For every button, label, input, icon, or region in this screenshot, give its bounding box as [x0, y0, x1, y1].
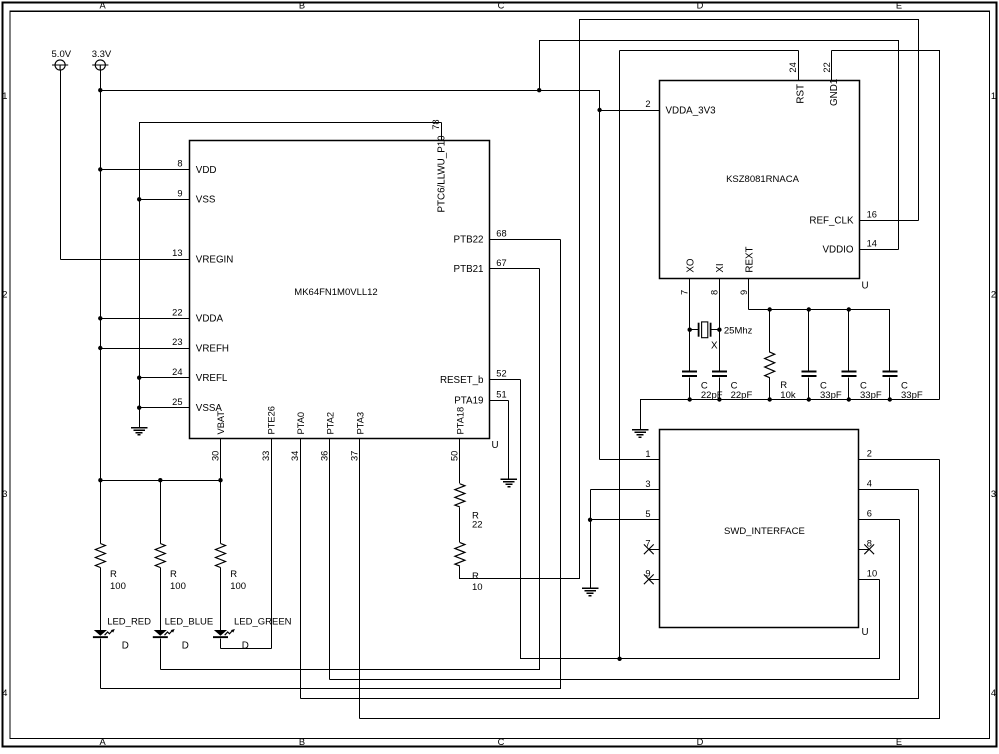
svg-text:PTC6/LLWU_P10: PTC6/LLWU_P10 [437, 135, 448, 213]
pin 22 VDDA of U1 [101, 318, 190, 320]
svg-text:VDDA_3V3: VDDA_3V3 [666, 105, 717, 116]
svg-text:25Mhz: 25Mhz [724, 326, 753, 337]
svg-text:XI: XI [715, 263, 726, 272]
svg-text:14: 14 [867, 239, 877, 249]
svg-text:GND1: GND1 [829, 79, 840, 106]
pin 52 RESET_b of U1 [490, 379, 521, 381]
svg-text:R: R [110, 569, 117, 580]
svg-text:VREFL: VREFL [196, 373, 228, 384]
svg-text:8: 8 [177, 159, 182, 169]
wire cap4 bottom lead [848, 378, 850, 400]
svg-text:VREFH: VREFH [196, 343, 229, 354]
LED LED_BLUE D2 [154, 630, 167, 636]
wire rail to R3 lead [220, 481, 222, 544]
pin 8 of SWD connector (no connect) [859, 549, 870, 551]
junction RST net / SWD pin10 [617, 657, 621, 661]
resistor R 10 (REF_CLK series) [455, 543, 465, 567]
svg-text:2: 2 [645, 99, 650, 109]
junction REXT rail / C4 [847, 307, 851, 311]
svg-text:PTB21: PTB21 [454, 264, 484, 275]
svg-text:U: U [862, 281, 869, 292]
junction LED rail / R2 [158, 478, 162, 482]
pin 9 REXT of PHY [748, 279, 750, 310]
svg-text:VDDIO: VDDIO [822, 245, 853, 256]
svg-text:8: 8 [709, 290, 719, 295]
svg-text:D: D [122, 640, 129, 651]
resistor R2 100 (LED_BLUE) [155, 544, 165, 568]
svg-text:B: B [299, 1, 305, 11]
svg-text:A: A [99, 737, 106, 747]
wire RESET_b vertical [521, 380, 880, 659]
wire LED_GREEN anode lead [220, 568, 222, 631]
svg-text:1: 1 [991, 91, 996, 101]
wire PTB22 to LED_RED [101, 240, 561, 689]
junction gnd rail / C4 [847, 397, 851, 401]
svg-text:XO: XO [685, 258, 696, 273]
svg-text:13: 13 [172, 248, 182, 258]
wire RST top link [620, 50, 799, 52]
svg-text:D: D [697, 1, 704, 11]
svg-text:D: D [242, 640, 249, 651]
ground (SWD pins 3/5) [582, 587, 599, 589]
svg-text:22: 22 [472, 520, 483, 531]
pin 37 PTA3 of U1 [359, 439, 361, 719]
junction VDD [98, 167, 102, 171]
svg-text:X: X [711, 341, 718, 352]
svg-text:R: R [170, 569, 177, 580]
LED LED_RED D1 [94, 630, 107, 636]
pin 14 VDDIO of PHY [860, 249, 899, 251]
wire VDDIO branch [540, 41, 899, 250]
junction XI / crystal [717, 328, 721, 332]
pin 2 VDDA_3V3 of PHY [600, 110, 660, 112]
pin 13 VREGIN of U1 [61, 259, 190, 261]
svg-text:VREGIN: VREGIN [196, 254, 234, 265]
wire PTE26 to LED_GREEN [221, 648, 272, 650]
svg-text:VBAT: VBAT [216, 411, 226, 435]
junction XO / crystal [688, 328, 692, 332]
svg-text:A: A [99, 1, 106, 11]
pin 78 PTC6/LLWU_P10 of U1 [441, 123, 443, 141]
pin 36 PTA2 of U1 [329, 439, 331, 680]
svg-text:E: E [896, 1, 902, 11]
svg-text:PTA2: PTA2 [326, 412, 336, 435]
pin 5 of SWD connector [591, 519, 660, 521]
wire cap3 top lead [808, 310, 810, 371]
wire rail to R2 lead [160, 481, 162, 544]
svg-text:25: 25 [172, 397, 182, 407]
pin 68 PTB22 of U1 [490, 239, 561, 241]
svg-text:100: 100 [230, 581, 246, 592]
pin 9 VSS of U1 [140, 199, 190, 201]
wire cap4 top lead [848, 310, 850, 371]
pin 67 PTB21 of U1 [490, 268, 540, 270]
svg-text:2: 2 [991, 290, 996, 300]
wire crystal stub left [690, 329, 699, 331]
svg-text:51: 51 [496, 389, 506, 399]
svg-text:5.0V: 5.0V [52, 49, 72, 60]
svg-text:4: 4 [991, 688, 996, 698]
connector SWD_INTERFACE body [660, 430, 859, 628]
svg-text:2: 2 [867, 449, 872, 459]
junction VSSA [137, 406, 141, 410]
wire LED_RED anode lead [100, 568, 102, 631]
svg-text:6: 6 [867, 509, 872, 519]
wire PTA0 to SWD pin4 [301, 490, 919, 699]
svg-text:3: 3 [645, 479, 650, 489]
svg-text:PTB22: PTB22 [454, 235, 484, 246]
svg-text:36: 36 [320, 451, 330, 461]
svg-text:22: 22 [822, 62, 832, 72]
junction gnd rail / C5 [888, 397, 892, 401]
svg-text:MK64FN1M0VLL12: MK64FN1M0VLL12 [294, 287, 377, 298]
wire rail to R1 lead [100, 481, 102, 544]
pin 30 VBAT of U1 [220, 439, 222, 481]
capacitor C 33pF (1) [801, 371, 816, 373]
wire LED_RED cathode lead [100, 639, 102, 689]
svg-text:RST: RST [795, 84, 806, 104]
pin 4 of SWD connector [859, 489, 919, 491]
pin 23 VREFH of U1 [101, 348, 190, 350]
svg-text:50: 50 [450, 451, 460, 461]
svg-text:24: 24 [788, 62, 798, 72]
capacitor C 22pF (XI) [712, 371, 727, 373]
svg-text:24: 24 [172, 367, 182, 377]
svg-text:9: 9 [177, 189, 182, 199]
wire PTA19 to ground [508, 401, 510, 480]
svg-text:REF_CLK: REF_CLK [809, 216, 854, 227]
wire cap1 bottom lead [689, 378, 691, 400]
svg-text:LED_BLUE: LED_BLUE [165, 616, 214, 627]
junction REXT rail / C3 [807, 307, 811, 311]
wire 3.3V to VDDA_3V3/SWD pin1 [101, 91, 600, 460]
svg-text:10: 10 [472, 582, 483, 593]
junction VDDA [98, 316, 102, 320]
junction 3.3V rail / horizontal [98, 88, 102, 92]
svg-text:10: 10 [867, 569, 877, 579]
wire cap2 bottom lead [719, 378, 721, 400]
junction gnd rail / C2 [717, 397, 721, 401]
pin 16 REF_CLK of PHY [860, 220, 919, 222]
junction VDDIO branch [537, 88, 541, 92]
junction VREFL [137, 376, 141, 380]
resistor R 22 (PTA18 series) [455, 484, 465, 507]
svg-text:C: C [498, 737, 505, 747]
svg-text:PTA19: PTA19 [454, 396, 483, 407]
junction gnd rail / C1 [688, 397, 692, 401]
wire pin78 to ground rail [140, 123, 442, 428]
pin 33 PTE26 of U1 [271, 439, 273, 649]
crystal X 25Mhz [698, 323, 700, 337]
wire REXT rail [749, 310, 890, 371]
pin 50 PTA18 of U1 [459, 439, 461, 484]
wire cap5 bottom lead [889, 378, 891, 400]
resistor R 10k (REXT) [765, 352, 775, 378]
svg-text:9: 9 [739, 290, 749, 295]
IC KSZ8081RNACA body [660, 81, 860, 279]
wire GND1 to cap rail [832, 51, 940, 400]
capacitor C 33pF (2) [841, 371, 856, 373]
wire cap3 bottom lead [808, 378, 810, 400]
power flag 3.3V [95, 60, 105, 70]
ground (crystal caps rail) [632, 429, 649, 431]
svg-text:22: 22 [172, 308, 182, 318]
svg-text:U: U [492, 440, 499, 451]
svg-text:30: 30 [210, 451, 220, 461]
wire PTA3 to SWD pin2 [360, 460, 940, 719]
wire LED_BLUE cathode lead [160, 639, 162, 670]
junction VDDA_3V3 / SWD pin1 [597, 108, 601, 112]
junction LED rail / R1 [98, 478, 102, 482]
wire PTA2 to SWD pin6 [330, 520, 900, 680]
svg-text:5: 5 [645, 509, 650, 519]
pin 1 of SWD connector [600, 459, 660, 461]
svg-text:78: 78 [431, 119, 441, 129]
svg-text:PTA3: PTA3 [356, 412, 366, 435]
ground (PTA19) [501, 478, 518, 480]
svg-text:KSZ8081RNACA: KSZ8081RNACA [726, 174, 800, 185]
pin 22 GND1 of PHY [831, 51, 833, 81]
svg-text:23: 23 [172, 337, 182, 347]
svg-text:PTE26: PTE26 [267, 406, 277, 434]
junction LED rail / R3 [218, 478, 222, 482]
pin 9 of SWD connector (no connect) [649, 579, 660, 581]
svg-text:VSS: VSS [196, 195, 216, 206]
junction gnd rail / C3 [807, 397, 811, 401]
wire LED supply rail [101, 480, 221, 482]
svg-text:100: 100 [110, 581, 126, 592]
svg-text:4: 4 [2, 688, 7, 698]
svg-text:7: 7 [680, 290, 690, 295]
resistor R1 100 (LED_RED) [95, 544, 105, 568]
wire SWD gnd vertical [590, 490, 592, 589]
power flag 5.0V [55, 60, 65, 70]
svg-text:67: 67 [496, 258, 506, 268]
junction gnd rail / R10k [768, 397, 772, 401]
svg-text:2: 2 [2, 290, 7, 300]
wire R10k bottom lead [769, 378, 771, 400]
pin 7 XO of PHY [689, 279, 691, 371]
wire RST to SWD pin10 (vertical) [619, 51, 621, 659]
svg-text:LED_RED: LED_RED [107, 616, 151, 627]
svg-text:VDD: VDD [196, 165, 217, 176]
svg-text:B: B [299, 737, 305, 747]
svg-text:D: D [182, 640, 189, 651]
svg-text:33: 33 [261, 451, 271, 461]
svg-text:C: C [498, 1, 505, 11]
wire R22 to R10 [459, 508, 461, 543]
svg-text:SWD_INTERFACE: SWD_INTERFACE [724, 526, 805, 537]
svg-text:PTA0: PTA0 [296, 412, 306, 435]
pin 24 RST of PHY [798, 51, 800, 81]
junction VSS [137, 197, 141, 201]
pin 8 XI of PHY [719, 279, 721, 371]
ground (VSS/VREFL/VSSA) [131, 427, 148, 429]
svg-text:R: R [230, 569, 237, 580]
wire PTB21 to LED_BLUE [161, 269, 540, 670]
junction REXT rail / R10k [768, 307, 772, 311]
pin 2 of SWD connector [859, 459, 940, 461]
svg-text:52: 52 [496, 369, 506, 379]
wire capacitor ground rail [641, 400, 940, 430]
svg-text:4: 4 [867, 479, 872, 489]
junction VREFH [98, 346, 102, 350]
wire LED_BLUE anode lead [160, 568, 162, 631]
junction SWD pin3/pin5 gnd [588, 518, 592, 522]
wire REF_CLK to R10 [460, 20, 919, 579]
LED LED_GREEN D3 [214, 630, 227, 636]
wire LED_GREEN cathode lead [220, 639, 222, 649]
svg-text:LED_GREEN: LED_GREEN [234, 616, 292, 627]
pin 6 of SWD connector [859, 519, 900, 521]
svg-text:16: 16 [867, 210, 877, 220]
wire 5.0V stem to VREGIN [60, 71, 62, 260]
svg-text:D: D [697, 737, 704, 747]
svg-text:1: 1 [645, 449, 650, 459]
pin 51 PTA19 of U1 [490, 400, 509, 402]
svg-text:RESET_b: RESET_b [440, 375, 484, 386]
svg-text:PTA18: PTA18 [456, 407, 466, 435]
pin 24 VREFL of U1 [140, 377, 190, 379]
svg-text:3: 3 [2, 489, 7, 499]
svg-text:1: 1 [2, 91, 7, 101]
svg-text:3.3V: 3.3V [92, 49, 112, 60]
capacitor C 22pF (XO) [682, 371, 697, 373]
wire crystal stub right [711, 329, 720, 331]
svg-text:68: 68 [496, 228, 506, 238]
pin 10 of SWD connector [859, 579, 880, 581]
svg-text:VDDA: VDDA [196, 314, 224, 325]
capacitor C 33pF (3) [882, 371, 897, 373]
pin 8 VDD of U1 [101, 169, 190, 171]
wire 3.3V vertical rail [100, 71, 102, 481]
pin 3 of SWD connector [591, 489, 660, 491]
svg-text:R: R [472, 571, 479, 582]
svg-text:37: 37 [350, 451, 360, 461]
pin 7 of SWD connector (no connect) [649, 549, 660, 551]
svg-text:U: U [862, 627, 869, 638]
svg-text:34: 34 [290, 451, 300, 461]
pin 34 PTA0 of U1 [300, 439, 302, 699]
wire R10k top lead [769, 310, 771, 353]
resistor R3 100 (LED_GREEN) [216, 544, 226, 568]
svg-text:E: E [896, 737, 902, 747]
pin 25 VSSA of U1 [140, 407, 190, 409]
svg-text:100: 100 [170, 581, 186, 592]
IC MK64FN1M0VLL12 body [190, 141, 490, 439]
svg-text:3: 3 [991, 489, 996, 499]
svg-text:REXT: REXT [745, 246, 756, 272]
